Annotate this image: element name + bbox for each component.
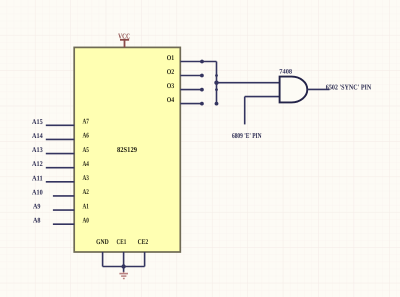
wire A13 — [46, 153, 74, 155]
svg-text:7408: 7408 — [279, 68, 292, 75]
svg-text:GND: GND — [96, 238, 109, 246]
junction bus at O2 level — [215, 74, 218, 77]
svg-text:A4: A4 — [83, 160, 90, 168]
junction bus at O3 level — [215, 88, 218, 91]
wire A11 — [46, 181, 74, 183]
svg-text:6809 'E' PIN: 6809 'E' PIN — [232, 131, 262, 140]
wire A9 — [53, 209, 74, 211]
wire O4 — [180, 103, 203, 105]
svg-text:A0: A0 — [83, 217, 90, 225]
wire gate output — [307, 88, 329, 90]
svg-text:O3: O3 — [167, 82, 175, 90]
svg-text:A13: A13 — [32, 146, 43, 154]
wire A14 — [46, 138, 74, 140]
ground symbol — [119, 272, 128, 279]
wire A8 — [53, 223, 74, 225]
junction bus bottom — [215, 102, 219, 106]
svg-text:CE1: CE1 — [117, 238, 127, 246]
wire gate input B horizontal — [245, 96, 280, 98]
junction on O1 wire — [200, 60, 204, 64]
svg-text:A3: A3 — [83, 174, 90, 182]
wire ground bus — [103, 266, 145, 268]
wire GND pin — [102, 252, 104, 267]
svg-text:A8: A8 — [33, 217, 41, 225]
junction end O3 — [200, 88, 204, 92]
IC U1 82S129 body — [74, 47, 180, 252]
svg-text:A7: A7 — [83, 118, 90, 126]
wire gate input A — [217, 82, 280, 84]
svg-text:A12: A12 — [32, 160, 43, 168]
wire gate input B vertical — [244, 97, 246, 125]
svg-text:CE2: CE2 — [138, 238, 149, 246]
svg-text:82S129: 82S129 — [117, 145, 137, 154]
wire A15 — [46, 124, 74, 126]
wire A12 — [46, 167, 74, 169]
AND gate U2 7408 — [280, 77, 308, 103]
wire O2 — [180, 75, 203, 77]
svg-text:A15: A15 — [32, 118, 43, 126]
junction end O2 — [200, 74, 204, 78]
wire O1 — [180, 61, 216, 63]
svg-text:O1: O1 — [167, 54, 175, 62]
svg-text:6502 'SYNC' PIN: 6502 'SYNC' PIN — [326, 82, 372, 91]
svg-text:A1: A1 — [83, 202, 90, 210]
wire O3 — [180, 89, 203, 91]
svg-text:A11: A11 — [32, 174, 43, 182]
wire CE2 pin — [144, 252, 146, 267]
wire A10 — [53, 195, 74, 197]
wire output bus vertical — [216, 62, 218, 104]
svg-text:A6: A6 — [83, 132, 90, 140]
junction end O4 — [200, 102, 204, 106]
power VCC — [118, 31, 130, 47]
wire CE1 pin — [123, 252, 125, 272]
svg-text:A9: A9 — [33, 203, 41, 211]
svg-text:A5: A5 — [83, 146, 90, 154]
junction ground — [121, 264, 125, 268]
svg-text:A2: A2 — [83, 188, 90, 196]
junction bus to gate — [214, 81, 218, 85]
svg-text:O4: O4 — [167, 96, 175, 104]
svg-text:O2: O2 — [167, 68, 175, 76]
svg-text:A14: A14 — [32, 132, 43, 140]
svg-text:A10: A10 — [32, 188, 43, 196]
